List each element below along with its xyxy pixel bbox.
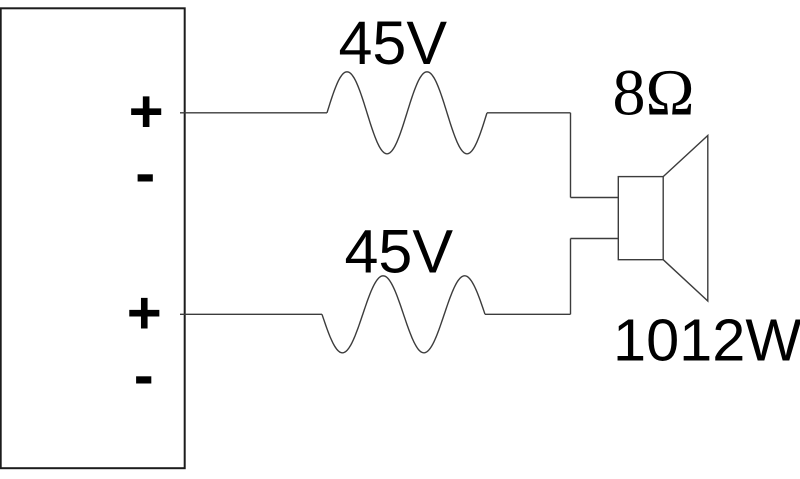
wire from bottom source to corner — [485, 313, 571, 315]
svg-text:8Ω: 8Ω — [613, 57, 695, 130]
speaker LS1 driver box — [618, 177, 663, 260]
svg-text:+: + — [129, 78, 164, 145]
wire from bottom + terminal to bottom source — [180, 313, 322, 315]
wire from speaker bottom terminal — [571, 238, 619, 240]
wire from top source to corner — [487, 112, 571, 114]
amplifier box U1 — [1, 8, 185, 468]
speaker LS1 cone — [663, 136, 708, 302]
svg-text:+: + — [127, 279, 162, 346]
svg-text:45V: 45V — [345, 218, 454, 286]
wire from + terminal to top source — [180, 112, 327, 114]
AC source V2 (bottom sine, inverted phase) — [322, 276, 485, 353]
svg-text:-: - — [135, 139, 155, 206]
svg-text:1012W: 1012W — [613, 307, 800, 374]
AC source V1 (top sine) — [327, 72, 487, 154]
svg-text:45V: 45V — [339, 9, 448, 77]
svg-text:-: - — [134, 342, 154, 409]
wire to speaker top terminal — [571, 197, 619, 199]
wire down to speaker top terminal — [570, 113, 572, 198]
wire down from speaker bottom terminal — [570, 239, 572, 315]
